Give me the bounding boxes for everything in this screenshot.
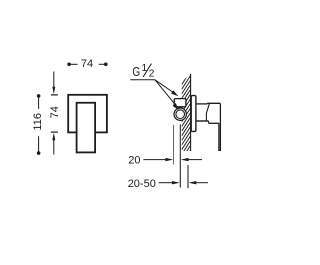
svg-text:20: 20 bbox=[128, 155, 140, 167]
svg-text:74: 74 bbox=[81, 58, 93, 70]
svg-text:2: 2 bbox=[149, 68, 155, 79]
svg-text:116: 116 bbox=[32, 113, 44, 131]
svg-text:G: G bbox=[132, 64, 140, 79]
svg-text:20-50: 20-50 bbox=[128, 178, 156, 190]
svg-text:74: 74 bbox=[49, 106, 61, 118]
